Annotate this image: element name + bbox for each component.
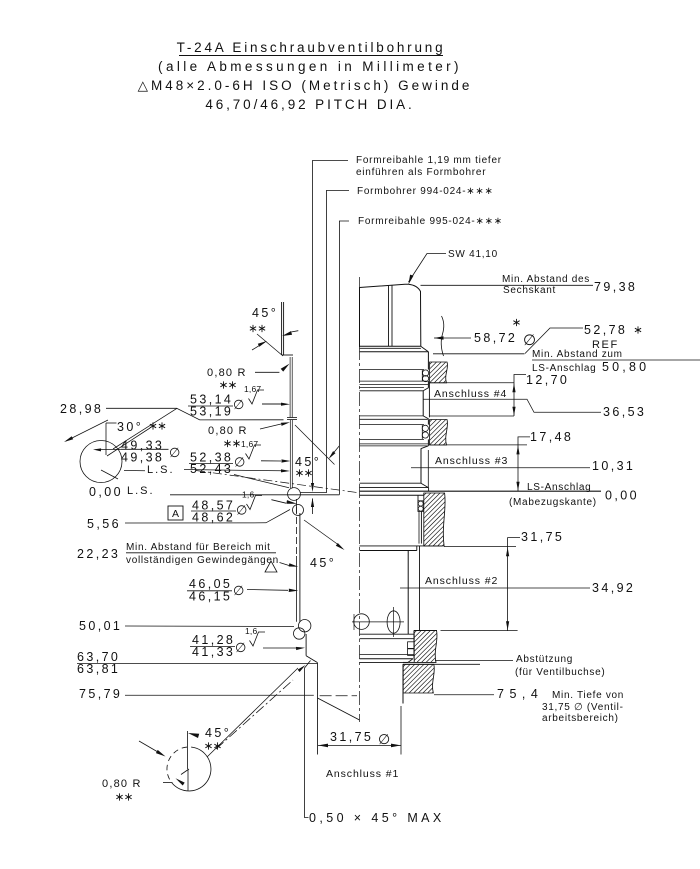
svg-text:Min. Abstand des: Min. Abstand des — [502, 274, 590, 285]
svg-text:Min. Tiefe von: Min. Tiefe von — [552, 690, 624, 701]
svg-text:Min. Abstand zum: Min. Abstand zum — [532, 349, 623, 360]
svg-text:75,4: 75,4 — [497, 687, 543, 701]
svg-text:45°: 45° — [205, 726, 231, 740]
svg-text:34,92: 34,92 — [592, 581, 635, 595]
svg-text:0,80 R: 0,80 R — [207, 367, 247, 379]
svg-text:Min. Abstand für Bereich mit: Min. Abstand für Bereich mit — [126, 542, 271, 553]
svg-text:0,00: 0,00 — [89, 485, 123, 499]
svg-text:0,50 × 45° MAX: 0,50 × 45° MAX — [309, 811, 445, 825]
svg-text:63,81: 63,81 — [77, 662, 120, 676]
svg-text:45°: 45° — [295, 455, 321, 469]
svg-text:L.S.: L.S. — [127, 485, 155, 497]
svg-text:(Mabezugskante): (Mabezugskante) — [509, 497, 597, 508]
svg-text:△M48×2.0-6H ISO (Metrisch) Gew: △M48×2.0-6H ISO (Metrisch) Gewinde — [138, 78, 473, 93]
svg-text:31,75: 31,75 — [521, 530, 564, 544]
svg-text:17,48: 17,48 — [530, 430, 573, 444]
svg-text:48,62: 48,62 — [192, 511, 235, 525]
svg-text:41,33: 41,33 — [192, 645, 235, 659]
svg-text:Sechskant: Sechskant — [503, 285, 556, 296]
svg-text:arbeitsbereich): arbeitsbereich) — [542, 713, 619, 724]
svg-text:(alle Abmessungen in Millimete: (alle Abmessungen in Millimeter) — [158, 59, 462, 74]
svg-text:∅: ∅ — [233, 583, 244, 598]
svg-text:28,98: 28,98 — [60, 402, 103, 416]
svg-text:Formbohrer 994-024-∗∗∗: Formbohrer 994-024-∗∗∗ — [357, 186, 494, 197]
svg-text:1,67: 1,67 — [244, 384, 261, 394]
svg-text:5,56: 5,56 — [87, 517, 121, 531]
svg-text:∅: ∅ — [169, 445, 180, 460]
svg-text:31,75 ∅ (Ventil-: 31,75 ∅ (Ventil- — [542, 702, 624, 713]
svg-text:(für Ventilbuchse): (für Ventilbuchse) — [515, 667, 605, 678]
svg-text:∅: ∅ — [236, 503, 247, 518]
svg-text:22,23: 22,23 — [77, 547, 120, 561]
svg-text:50,01: 50,01 — [79, 619, 122, 633]
svg-text:0,80 R: 0,80 R — [208, 425, 248, 437]
svg-text:Anschluss #1: Anschluss #1 — [326, 768, 399, 780]
svg-text:Anschluss #4: Anschluss #4 — [434, 388, 507, 400]
svg-text:Formreibahle 1,19 mm tiefer: Formreibahle 1,19 mm tiefer — [356, 155, 502, 166]
svg-text:36,53: 36,53 — [603, 405, 646, 419]
svg-text:T-24A Einschraubventilbohrung: T-24A Einschraubventilbohrung — [177, 40, 446, 55]
svg-text:SW 41,10: SW 41,10 — [448, 249, 498, 260]
svg-text:einführen als Formbohrer: einführen als Formbohrer — [356, 167, 486, 178]
svg-text:∅: ∅ — [523, 332, 536, 349]
svg-text:∅: ∅ — [378, 731, 390, 747]
svg-text:49,38: 49,38 — [121, 450, 164, 464]
svg-text:79,38: 79,38 — [594, 280, 637, 294]
svg-text:10,31: 10,31 — [592, 459, 635, 473]
svg-text:12,70: 12,70 — [526, 373, 569, 387]
svg-text:A: A — [172, 508, 179, 520]
svg-text:0,80 R: 0,80 R — [102, 778, 142, 790]
svg-text:0,00: 0,00 — [605, 489, 639, 503]
svg-text:45°: 45° — [310, 556, 336, 570]
svg-text:1,6: 1,6 — [245, 626, 257, 636]
svg-text:LS-Anschlag: LS-Anschlag — [527, 482, 591, 493]
svg-text:1,67: 1,67 — [241, 439, 258, 449]
svg-text:Abstützung: Abstützung — [516, 654, 573, 665]
svg-text:∅: ∅ — [233, 397, 244, 412]
svg-text:1,6: 1,6 — [242, 490, 254, 500]
svg-text:46,15: 46,15 — [189, 590, 232, 604]
svg-text:L.S.: L.S. — [147, 464, 175, 476]
svg-text:Anschluss #2: Anschluss #2 — [425, 575, 498, 587]
svg-text:31,75: 31,75 — [330, 730, 373, 744]
svg-text:53,19: 53,19 — [190, 405, 233, 419]
svg-text:vollständigen Gewindegängen: vollständigen Gewindegängen — [126, 555, 279, 566]
svg-text:45°: 45° — [252, 306, 278, 320]
svg-text:50,80: 50,80 — [602, 360, 649, 374]
svg-text:46,70/46,92 PITCH DIA.: 46,70/46,92 PITCH DIA. — [205, 97, 414, 112]
svg-text:52,43: 52,43 — [190, 462, 233, 476]
svg-text:Formreibahle 995-024-∗∗∗: Formreibahle 995-024-∗∗∗ — [358, 216, 503, 227]
svg-text:Anschluss #3: Anschluss #3 — [435, 455, 508, 467]
svg-text:∅: ∅ — [235, 640, 246, 655]
svg-text:75,79: 75,79 — [79, 687, 122, 701]
svg-text:52,78: 52,78 — [584, 323, 627, 337]
svg-text:∅: ∅ — [234, 455, 245, 470]
svg-text:58,72: 58,72 — [474, 331, 517, 345]
